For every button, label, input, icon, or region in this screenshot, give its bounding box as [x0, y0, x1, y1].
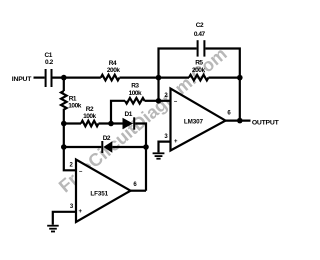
junction R1/R2 node: [61, 121, 67, 127]
wire pin2 node to LM307: [159, 100, 171, 102]
junction node B: [156, 75, 162, 81]
wire LM307 output: [226, 119, 251, 121]
wire D2 row right: [112, 146, 146, 148]
resistor R3: [125, 98, 144, 104]
svg-text:100k: 100k: [129, 90, 142, 97]
wire D2 row left: [64, 146, 102, 148]
wire R2 left lead: [64, 122, 81, 124]
svg-text:100k: 100k: [83, 113, 96, 120]
resistor R1: [61, 78, 67, 124]
svg-text:+: +: [79, 209, 83, 215]
wire LM307 pin3 to ground: [159, 142, 171, 153]
junction node C: [237, 75, 243, 81]
wire node C down to output node: [239, 78, 241, 121]
wire left vertical below R2 node: [64, 124, 76, 171]
resistor R2: [81, 121, 98, 127]
junction output node: [237, 118, 243, 124]
junction pin2 node LM307: [156, 98, 162, 104]
svg-text:LF351: LF351: [90, 190, 108, 197]
capacitor C2 plates: [197, 40, 206, 56]
wire R3 to corner down to D1 node: [111, 101, 125, 124]
junction D2 right node: [143, 144, 149, 150]
junction node A: [61, 75, 67, 81]
wire input lead: [34, 76, 45, 78]
svg-text:R3: R3: [131, 83, 139, 90]
resistor R5: [189, 75, 208, 81]
diode D2: [101, 141, 112, 153]
svg-text:D2: D2: [103, 135, 111, 142]
svg-text:200k: 200k: [107, 67, 120, 74]
svg-text:R2: R2: [86, 106, 94, 113]
svg-text:R5: R5: [195, 60, 203, 67]
resistor R4: [101, 75, 120, 81]
svg-text:0.47: 0.47: [194, 31, 206, 38]
wire R5 to node C: [209, 76, 240, 78]
svg-text:LM307: LM307: [184, 119, 204, 126]
wire LF351 pin3 to ground: [53, 212, 76, 225]
wire C2 loop right riser: [205, 49, 239, 78]
op-amp U1 LF351: [76, 160, 131, 223]
wire C2 loop left riser: [159, 49, 197, 78]
svg-text:200k: 200k: [192, 67, 205, 74]
wire node B down to pin2 node: [157, 78, 159, 101]
svg-text:OUTPUT: OUTPUT: [252, 120, 280, 127]
wire R4 to node B: [120, 76, 190, 78]
svg-text:C1: C1: [44, 52, 52, 59]
svg-text:0.2: 0.2: [45, 59, 54, 66]
junction R2/R3/D1 node: [108, 121, 114, 127]
op-amp U2 LM307: [171, 89, 226, 151]
wire C1 to node A: [53, 76, 101, 78]
svg-text:R4: R4: [109, 60, 117, 67]
junction D2 left node: [61, 144, 67, 150]
ground LF351: [47, 225, 59, 233]
svg-text:100k: 100k: [68, 103, 81, 110]
svg-text:C2: C2: [196, 22, 204, 29]
wire D1 cathode to corner down: [135, 124, 146, 191]
wire R3 left leg: [145, 100, 159, 102]
wire LF351 output: [131, 190, 147, 192]
svg-text:+: +: [174, 139, 178, 145]
svg-text:INPUT: INPUT: [12, 76, 32, 83]
capacitor C1 plates: [45, 69, 53, 87]
wire R2 to D1 node: [99, 122, 123, 124]
ground LM307: [153, 152, 165, 159]
diode D1: [123, 117, 136, 129]
svg-text:D1: D1: [124, 111, 132, 118]
